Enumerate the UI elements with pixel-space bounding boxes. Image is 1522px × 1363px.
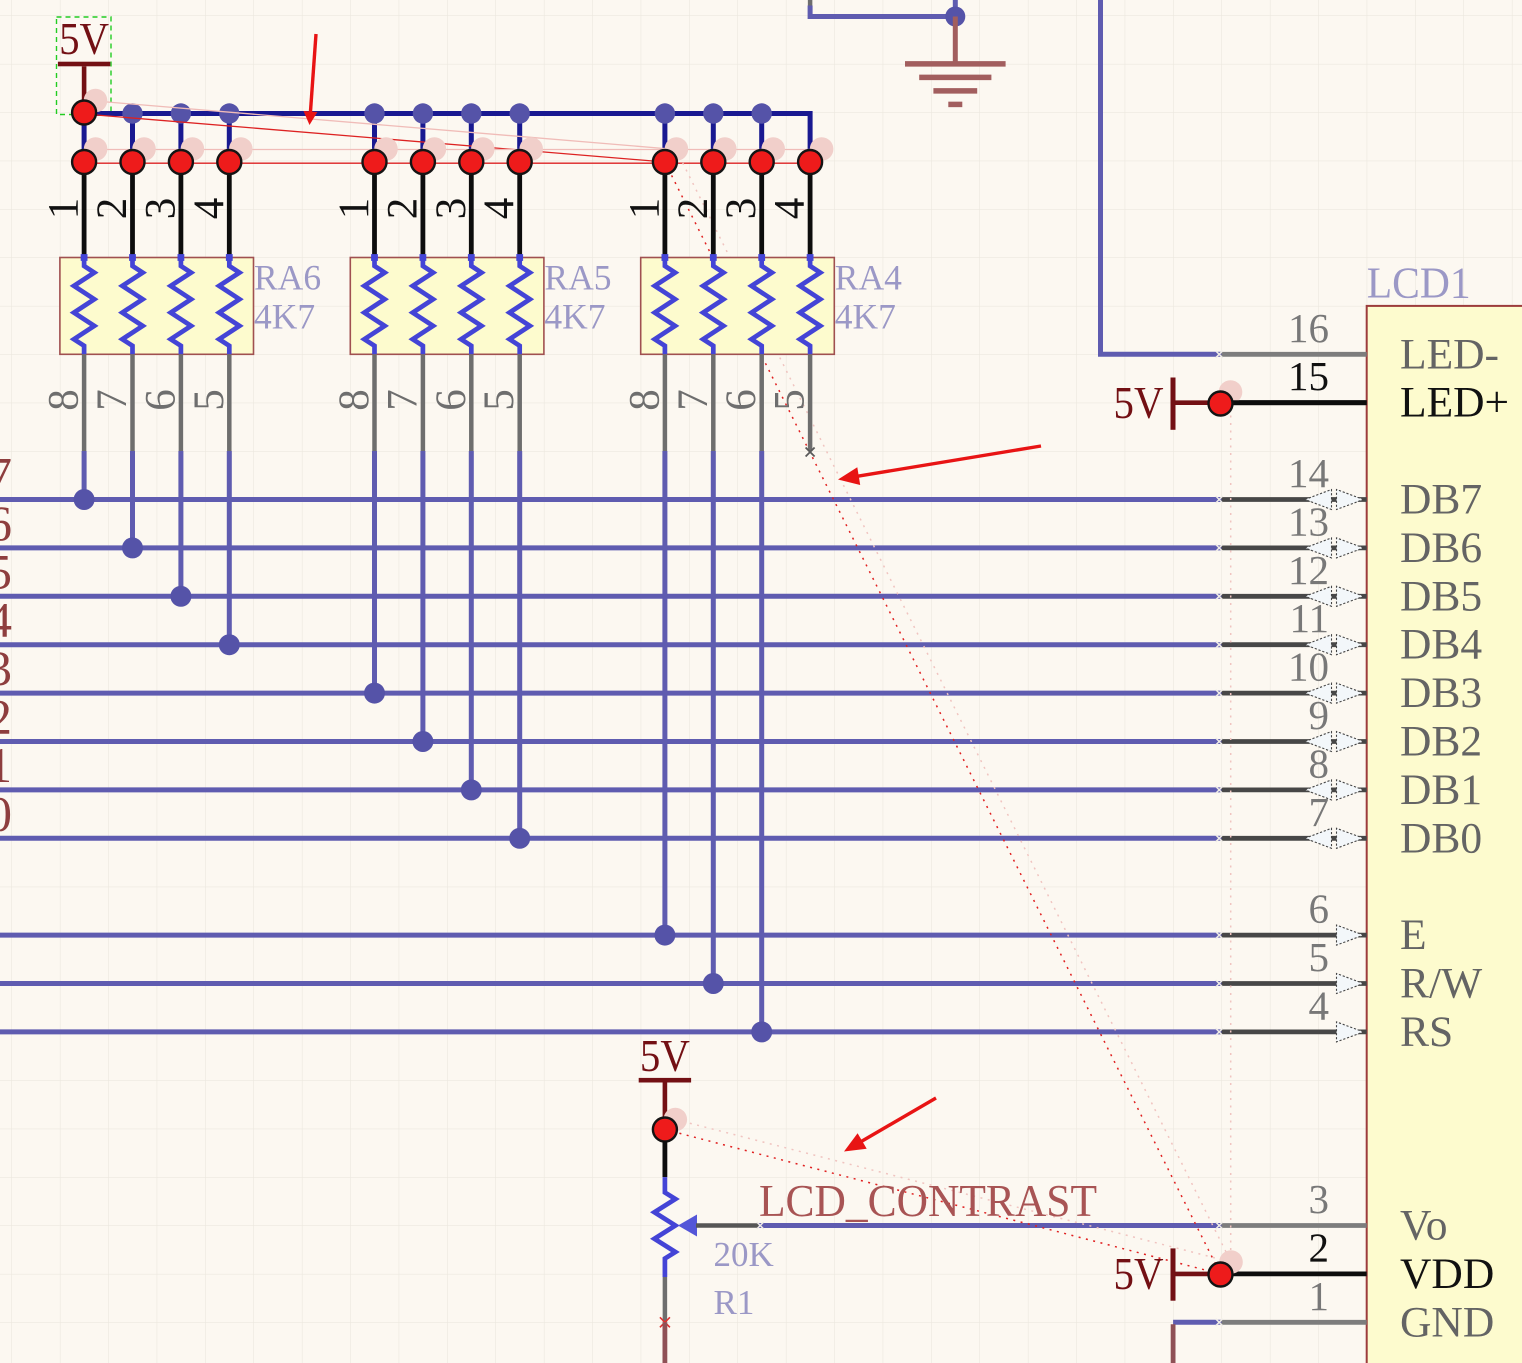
wire bus stub down xyxy=(662,114,667,163)
wire RA6 pin 6 to DB5 xyxy=(178,451,183,596)
ghost junction (original position) xyxy=(84,137,108,161)
svg-text:7: 7 xyxy=(89,389,136,411)
svg-text:GND: GND xyxy=(1400,1298,1494,1346)
pin 1 wire of RA6 xyxy=(82,162,87,258)
svg-text:RA5: RA5 xyxy=(544,258,611,298)
svg-text:12: 12 xyxy=(1288,547,1329,593)
ghost junction at VDD xyxy=(1219,1250,1243,1274)
wire net DB2 horizontal xyxy=(0,739,1222,744)
svg-text:4K7: 4K7 xyxy=(254,297,315,337)
wire net DB3 horizontal xyxy=(0,691,1222,696)
wire net GND to pin 1 xyxy=(1173,1320,1221,1325)
junction RA6/DB5 xyxy=(170,586,191,607)
ghost junction (original position) xyxy=(229,137,253,161)
junction RA5/DB0 xyxy=(509,828,530,849)
pin number 7 of RA5 xyxy=(379,389,426,411)
wire end markers xyxy=(757,351,1223,1326)
svg-text:DB4: DB4 xyxy=(1400,621,1482,669)
junction RA6/DB4 xyxy=(219,634,240,655)
wire bus stub down xyxy=(227,114,232,163)
pin number 3 of RA6 xyxy=(137,198,184,220)
svg-text:RA6: RA6 xyxy=(254,258,321,298)
selected junction red dot xyxy=(701,150,725,174)
wire bus stub down xyxy=(517,114,522,163)
svg-text:4: 4 xyxy=(1309,982,1330,1028)
drag trace horizontal red xyxy=(84,162,822,164)
junction RA4/R/W xyxy=(703,973,724,994)
svg-text:8: 8 xyxy=(331,389,378,411)
drag trace dotted red long diagonal xyxy=(665,162,1221,1274)
resistor element RA4B xyxy=(710,254,717,261)
unconnected pin 5 of RA4 cross xyxy=(806,448,815,457)
pin number 6 of RA4 xyxy=(718,389,765,411)
wire bus stub down xyxy=(130,114,135,163)
wire dark red below R1 xyxy=(663,1322,668,1363)
selected junction red dot xyxy=(653,150,677,174)
svg-text:E: E xyxy=(1400,911,1427,959)
junction RA6/DB6 xyxy=(122,537,143,558)
svg-text:6: 6 xyxy=(718,389,765,411)
wire RA4 pin 7 to R/W xyxy=(711,451,716,984)
svg-text:R1: R1 xyxy=(714,1283,755,1322)
ground symbol xyxy=(905,17,1006,105)
svg-text:10: 10 xyxy=(1288,644,1329,690)
svg-text:20K: 20K xyxy=(714,1235,774,1274)
resistor element RA5C xyxy=(468,254,475,261)
ghost junction (original position) xyxy=(761,137,785,161)
ghost junction (original position) xyxy=(132,137,156,161)
svg-text:5: 5 xyxy=(476,389,523,411)
svg-text:8: 8 xyxy=(41,389,88,411)
pin 3 wire of RA6 xyxy=(178,162,183,258)
svg-text:9: 9 xyxy=(1309,692,1330,738)
resistor element RA5D xyxy=(516,254,523,261)
svg-text:16: 16 xyxy=(1288,305,1329,351)
pin 8 wire of RA5 xyxy=(372,354,377,451)
selected junction red dot xyxy=(169,150,193,174)
pin number 2 of RA4 xyxy=(670,198,717,220)
pin 13 DB6 of LCD1 xyxy=(1222,498,1483,572)
wire bus stub down xyxy=(82,114,87,163)
pin number 6 of RA5 xyxy=(428,389,475,411)
svg-text:8: 8 xyxy=(1309,740,1330,786)
potentiometer R1 xyxy=(654,1177,675,1277)
pin 4 wire of RA5 xyxy=(517,162,522,258)
wiper pin of R1 xyxy=(696,1223,759,1228)
resistor array RA6 body xyxy=(60,258,254,355)
pin 5 wire of RA4 xyxy=(808,354,813,451)
pin 11 DB4 of LCD1 xyxy=(1222,595,1483,669)
svg-text:2: 2 xyxy=(1309,1224,1330,1270)
wire RA5 pin 5 to DB0 xyxy=(517,451,522,838)
selected junction red dot xyxy=(508,150,532,174)
junction on 5V bus xyxy=(655,103,675,123)
pin 7 wire of RA4 xyxy=(711,354,716,451)
drag trace dotted pink from pot xyxy=(675,1120,1231,1263)
svg-text:0: 0 xyxy=(0,785,12,841)
resistor element RA6D xyxy=(226,254,233,261)
selected junction red dot VDD xyxy=(1209,1263,1233,1287)
pin number 6 of RA6 xyxy=(137,389,184,411)
svg-text:11: 11 xyxy=(1290,595,1329,641)
wire net E horizontal xyxy=(0,933,1222,938)
svg-text:4: 4 xyxy=(476,198,523,220)
pin 6 wire of RA4 xyxy=(759,354,764,451)
ghost junction at R1 top xyxy=(664,1108,688,1132)
svg-text:LED-: LED- xyxy=(1400,330,1499,378)
pin 16 LED- of LCD1 xyxy=(1222,305,1500,379)
no-connect cross at R1 bottom xyxy=(660,1317,670,1327)
pin 4 wire of RA6 xyxy=(227,162,232,258)
resistor element RA5A xyxy=(371,254,378,261)
pin 7 DB0 of LCD1 xyxy=(1222,789,1483,863)
junction at ground xyxy=(945,7,965,27)
pin 2 wire of RA5 xyxy=(420,162,425,258)
wire RA6 pin 5 to DB4 xyxy=(227,451,232,645)
selected junction red dot R1 top xyxy=(653,1118,677,1142)
svg-text:6: 6 xyxy=(428,389,475,411)
wire RA4 pin 8 to E xyxy=(662,451,667,935)
selected junction red dot xyxy=(217,150,241,174)
svg-text:LED+: LED+ xyxy=(1400,379,1509,427)
junction RA5/DB2 xyxy=(412,731,433,752)
svg-text:3: 3 xyxy=(718,198,765,220)
svg-text:DB5: DB5 xyxy=(1400,572,1482,620)
svg-text:1: 1 xyxy=(621,198,668,220)
svg-text:DB3: DB3 xyxy=(1400,669,1482,717)
selected junction red dot xyxy=(121,150,145,174)
pin 6 wire of RA5 xyxy=(469,354,474,451)
annotation arrow 1 xyxy=(310,34,316,116)
svg-text:RS: RS xyxy=(1400,1008,1453,1056)
svg-text:1: 1 xyxy=(331,198,378,220)
pin number 8 of RA4 xyxy=(621,389,668,411)
pin 10 DB3 of LCD1 xyxy=(1222,644,1483,718)
pin number 1 of RA5 xyxy=(331,198,378,220)
svg-text:2: 2 xyxy=(379,198,426,220)
wire bus stub down xyxy=(759,114,764,163)
wire bus stub down xyxy=(178,114,183,163)
ghost junction at LED+ xyxy=(1219,380,1243,404)
svg-text:1: 1 xyxy=(1309,1273,1330,1319)
wire RA6 pin 8 to DB7 xyxy=(82,451,87,500)
pin 8 DB1 of LCD1 xyxy=(1222,740,1483,814)
svg-text:8: 8 xyxy=(621,389,668,411)
wire black LED+ xyxy=(1222,400,1367,405)
svg-text:5: 5 xyxy=(186,389,233,411)
junction on 5V bus xyxy=(510,103,530,123)
junction RA5/DB1 xyxy=(461,779,482,800)
svg-text:LCD1: LCD1 xyxy=(1367,259,1471,308)
drag trace line solid pink xyxy=(96,101,677,150)
pin number 8 of RA5 xyxy=(331,389,378,411)
svg-text:DB2: DB2 xyxy=(1400,718,1482,766)
pin 8 wire of RA6 xyxy=(82,354,87,451)
ghost junction (original position) xyxy=(374,137,398,161)
ghost junction (original position) xyxy=(423,137,447,161)
pin 6 E of LCD1 xyxy=(1222,886,1427,960)
wiper arrow of R1 xyxy=(678,1215,697,1237)
svg-text:4K7: 4K7 xyxy=(544,297,605,337)
wire net DB0 horizontal xyxy=(0,836,1222,841)
svg-text:RA4: RA4 xyxy=(835,258,902,298)
pin number 1 of RA6 xyxy=(41,198,88,220)
annotation arrow 3 xyxy=(859,1098,936,1143)
junction RA6/DB7 xyxy=(74,489,95,510)
pin 12 DB5 of LCD1 xyxy=(1222,547,1483,621)
junction on 5V bus xyxy=(122,103,142,123)
pin wire R1 bottom xyxy=(663,1277,668,1322)
resistor element RA4C xyxy=(758,254,765,261)
svg-text:5V: 5V xyxy=(640,1030,690,1081)
resistor array RA5 body xyxy=(350,258,544,355)
selected junction red dot xyxy=(750,150,774,174)
wire net DB7 horizontal xyxy=(0,497,1222,502)
pin number 3 of RA4 xyxy=(718,198,765,220)
pin number 7 of RA6 xyxy=(89,389,136,411)
junction on 5V bus xyxy=(752,103,772,123)
svg-text:7: 7 xyxy=(1309,789,1330,835)
junction RA4/E xyxy=(654,925,675,946)
wire RA5 pin 8 to DB3 xyxy=(372,451,377,693)
drag trace dotted pink long diagonal xyxy=(676,150,1231,1263)
pin stub from component above xyxy=(808,0,813,6)
pin 9 DB2 of LCD1 xyxy=(1222,692,1483,766)
svg-text:2: 2 xyxy=(670,198,717,220)
svg-text:5: 5 xyxy=(767,389,814,411)
pin number 5 of RA5 xyxy=(476,389,523,411)
junction on 5V bus xyxy=(219,103,239,123)
pin number 1 of RA4 xyxy=(621,198,668,220)
selected junction red dot xyxy=(798,150,822,174)
annotation arrow 2 xyxy=(855,446,1041,477)
svg-text:LCD_CONTRAST: LCD_CONTRAST xyxy=(759,1175,1097,1226)
pin 7 wire of RA6 xyxy=(130,354,135,451)
svg-text:4: 4 xyxy=(186,198,233,220)
svg-text:Vo: Vo xyxy=(1400,1202,1448,1250)
pin number 4 of RA6 xyxy=(186,198,233,220)
component LCD1 body xyxy=(1367,306,1522,1363)
ghost junction (original position) xyxy=(810,137,834,161)
svg-text:5V: 5V xyxy=(1114,1248,1164,1299)
pin 5 R/W of LCD1 xyxy=(1222,934,1483,1008)
wire bus stub down xyxy=(420,114,425,163)
junction on 5V bus xyxy=(364,103,384,123)
pin 3 Vo of LCD1 xyxy=(1222,1176,1448,1250)
junction on 5V bus xyxy=(703,103,723,123)
pin number 2 of RA6 xyxy=(89,198,136,220)
pin 1 wire of RA5 xyxy=(372,162,377,258)
selected junction red dot LED+ xyxy=(1209,392,1233,416)
svg-text:6: 6 xyxy=(137,389,184,411)
resistor element RA5B xyxy=(420,254,427,261)
ghost junction (original position) xyxy=(471,137,495,161)
pin 3 wire of RA5 xyxy=(469,162,474,258)
selected junction red dot xyxy=(459,150,483,174)
ghost junction (original position) xyxy=(84,89,108,113)
selected junction red dot xyxy=(411,150,435,174)
power port 5V at VDD xyxy=(1114,1248,1215,1301)
svg-text:5: 5 xyxy=(1309,934,1330,980)
selected junction red dot 5V rail xyxy=(72,101,96,125)
wire GND drop dark red xyxy=(1171,1324,1176,1363)
selected junction red dot xyxy=(72,150,96,174)
pin number 2 of RA5 xyxy=(379,198,426,220)
wire net R/W horizontal xyxy=(0,981,1222,986)
svg-text:3: 3 xyxy=(428,198,475,220)
resistor element RA6C xyxy=(178,254,185,261)
pin 14 DB7 of LCD1 xyxy=(1222,450,1483,524)
wire net Vo horizontal xyxy=(759,1223,1222,1228)
junction RA4/RS xyxy=(751,1021,772,1042)
wire RA4 pin 6 to RS xyxy=(759,451,764,1032)
ghost junction (original position) xyxy=(181,137,205,161)
selected junction red dot xyxy=(363,150,387,174)
wire bus stub down xyxy=(711,114,716,163)
svg-text:6: 6 xyxy=(1309,886,1330,932)
svg-text:R/W: R/W xyxy=(1400,960,1482,1008)
wire net DB5 horizontal xyxy=(0,594,1222,599)
pin number 5 of RA6 xyxy=(186,389,233,411)
resistor array RA4 body xyxy=(641,258,835,355)
svg-text:DB6: DB6 xyxy=(1400,524,1482,572)
svg-text:DB7: DB7 xyxy=(1400,476,1482,524)
wire black R1 top xyxy=(663,1141,668,1177)
junction on 5V bus xyxy=(171,103,191,123)
svg-text:3: 3 xyxy=(1309,1176,1330,1222)
wire vertical from top to ground junction xyxy=(953,0,958,17)
pin number 8 of RA6 xyxy=(41,389,88,411)
wire net DB1 horizontal xyxy=(0,787,1222,792)
wire RA5 pin 7 to DB2 xyxy=(420,451,425,742)
pin number 3 of RA5 xyxy=(428,198,475,220)
pin 2 wire of RA4 xyxy=(711,162,716,258)
svg-text:5V: 5V xyxy=(59,13,109,64)
wire net DB4 horizontal xyxy=(0,642,1222,647)
pin 3 wire of RA4 xyxy=(759,162,764,258)
junction on 5V bus xyxy=(413,103,433,123)
svg-text:5V: 5V xyxy=(1114,377,1164,428)
wire 5V bus horizontal xyxy=(84,111,810,116)
pin 6 wire of RA6 xyxy=(179,354,184,451)
pin 5 wire of RA6 xyxy=(227,354,232,451)
pin 2 VDD of LCD1 xyxy=(1222,1224,1495,1298)
power port 5V at LED+ xyxy=(1114,377,1215,430)
svg-text:DB1: DB1 xyxy=(1400,766,1482,814)
pin 15 LED+ of LCD1 xyxy=(1222,353,1510,427)
pin 1 wire of RA4 xyxy=(663,162,668,258)
ghost junction (original position) xyxy=(519,137,543,161)
resistor element RA4D xyxy=(807,254,814,261)
pin 1 GND of LCD1 xyxy=(1222,1273,1495,1347)
junction on 5V bus xyxy=(461,103,481,123)
wire net DB6 horizontal xyxy=(0,545,1222,550)
svg-text:2: 2 xyxy=(89,198,136,220)
wire LED- vertical from top xyxy=(1101,0,1222,354)
junction RA5/DB3 xyxy=(364,683,385,704)
wire bus stub down xyxy=(469,114,474,163)
pin 7 wire of RA5 xyxy=(421,354,426,451)
wire bus stub down xyxy=(372,114,377,163)
pin 8 wire of RA4 xyxy=(663,354,668,451)
power port 5V at R1 xyxy=(639,1030,691,1130)
pin 2 wire of RA6 xyxy=(130,162,135,258)
pin 5 wire of RA5 xyxy=(517,354,522,451)
svg-text:7: 7 xyxy=(379,389,426,411)
svg-text:15: 15 xyxy=(1288,353,1329,399)
svg-text:1: 1 xyxy=(41,198,88,220)
pin 4 wire of RA4 xyxy=(808,162,813,258)
wire RA6 pin 7 to DB6 xyxy=(130,451,135,548)
power port 5V (top left) xyxy=(57,13,112,114)
drag trace dotted red from pot xyxy=(665,1130,1221,1275)
svg-text:4K7: 4K7 xyxy=(835,297,896,337)
drag trace line solid red xyxy=(84,114,665,162)
pin number 4 of RA4 xyxy=(767,198,814,220)
ghost junction (original position) xyxy=(665,137,689,161)
pin number 4 of RA5 xyxy=(476,198,523,220)
resistor element RA4A xyxy=(662,254,669,261)
resistor element RA6A xyxy=(81,254,88,261)
svg-text:VDD: VDD xyxy=(1400,1250,1494,1298)
pin number 5 of RA4 xyxy=(767,389,814,411)
drag trace horizontal pink xyxy=(96,149,834,151)
wire to ground junction xyxy=(810,6,955,17)
wire RA5 pin 6 to DB1 xyxy=(469,451,474,790)
wire bus corner down to RA4 pin 4 xyxy=(808,111,813,162)
ghost junction (original position) xyxy=(713,137,737,161)
svg-text:14: 14 xyxy=(1288,450,1329,496)
svg-text:3: 3 xyxy=(137,198,184,220)
wire net RS horizontal xyxy=(0,1029,1222,1034)
svg-text:7: 7 xyxy=(670,389,717,411)
svg-text:13: 13 xyxy=(1288,498,1329,544)
drag trace dotted pink vertical xyxy=(1230,393,1232,1262)
svg-text:DB0: DB0 xyxy=(1400,814,1482,862)
resistor element RA6B xyxy=(129,254,136,261)
svg-text:4: 4 xyxy=(767,198,814,220)
pin number 7 of RA4 xyxy=(670,389,717,411)
pin 4 RS of LCD1 xyxy=(1222,982,1454,1056)
